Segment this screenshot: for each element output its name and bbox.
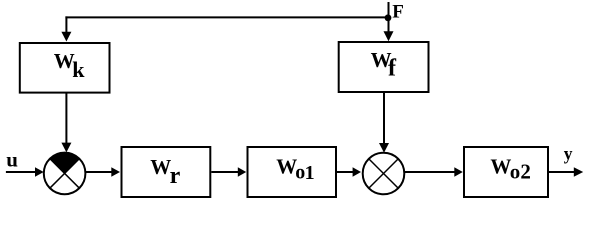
svg-text:u: u xyxy=(6,147,18,171)
summing junction S1 circle xyxy=(44,153,86,195)
wire u input horizontal xyxy=(6,171,35,173)
svg-text:W: W xyxy=(276,155,297,179)
wire Wo1 to S2 xyxy=(337,171,353,173)
wire Wk bottom to summing junction S1 xyxy=(65,92,67,143)
arrowhead into S1 top xyxy=(61,143,71,153)
arrowhead into S1 left xyxy=(35,167,44,177)
block Wk box xyxy=(20,43,110,93)
summing junction S2 diagonal cross xyxy=(369,159,398,188)
arrowhead into Wo2 left xyxy=(454,167,463,177)
arrowhead into Wf top xyxy=(384,31,394,41)
summing junction S2 circle xyxy=(363,153,405,195)
arrowhead into Wo1 left xyxy=(238,167,246,177)
node F junction dot xyxy=(385,14,392,21)
wire S1 to Wr xyxy=(85,171,112,173)
wire feedback left vertical drop to Wk xyxy=(65,16,67,32)
wire Wf bottom to summing junction S2 xyxy=(383,92,385,144)
arrowhead into Wr left xyxy=(111,167,120,177)
wire F input vertical xyxy=(388,2,390,32)
block Wo1 box xyxy=(248,147,337,197)
svg-text:F: F xyxy=(392,1,404,22)
wire S2 to Wo2 xyxy=(404,171,455,173)
block Wo2 box xyxy=(464,147,548,197)
svg-text:2: 2 xyxy=(520,160,531,184)
wire Wr to Wo1 xyxy=(211,171,238,173)
summing junction S1 diagonal cross xyxy=(50,159,79,188)
arrowhead into Wk top xyxy=(61,32,71,42)
svg-text:f: f xyxy=(388,56,397,82)
svg-text:W: W xyxy=(150,155,171,179)
wire Wo2 to output y xyxy=(549,171,574,173)
svg-text:W: W xyxy=(490,154,511,178)
wire feedback top horizontal xyxy=(65,16,388,18)
arrowhead into S2 top xyxy=(379,143,389,153)
summing junction S1 filled top sector xyxy=(50,153,79,173)
block Wr box xyxy=(122,147,211,197)
svg-text:o: o xyxy=(510,160,521,184)
arrowhead output y xyxy=(574,167,583,177)
svg-text:1: 1 xyxy=(305,162,315,184)
arrowhead into S2 left xyxy=(353,167,361,177)
block Wf box xyxy=(339,42,429,92)
svg-text:y: y xyxy=(564,144,573,164)
svg-text:k: k xyxy=(72,57,85,82)
svg-text:r: r xyxy=(170,163,181,189)
